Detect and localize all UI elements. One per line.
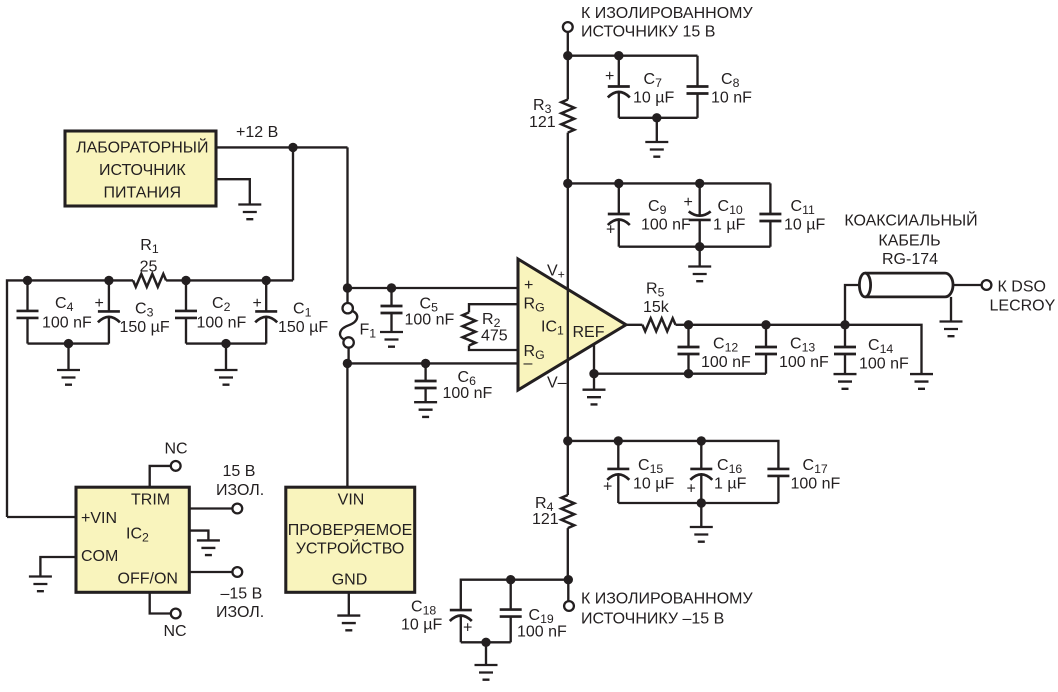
wire: C7/C8 bottom rail — [619, 117, 698, 119]
svg-text:ИЗОЛ.: ИЗОЛ. — [216, 604, 264, 621]
box: ПРОВЕРЯЕМОЕ УСТРОЙСТВО — [286, 487, 415, 592]
svg-text:–: – — [524, 355, 533, 372]
box: IC2 — [76, 487, 189, 592]
capacitor C7 10 µF (polarized) — [605, 56, 674, 118]
capacitor C3 150 µF (polarized) — [95, 280, 170, 343]
ground — [29, 577, 52, 592]
wire: V- rail — [568, 441, 779, 469]
svg-text:C10: C10 — [718, 198, 743, 217]
wire: junction up to coax — [845, 285, 859, 325]
svg-text:ИСТОЧНИКУ 15 В: ИСТОЧНИКУ 15 В — [581, 24, 715, 41]
svg-text:1 µF: 1 µF — [714, 476, 747, 493]
resistor R5 15k — [626, 281, 689, 332]
node: C12 bottom — [684, 369, 693, 378]
svg-text:ИСТОЧНИКУ –15 В: ИСТОЧНИКУ –15 В — [581, 611, 724, 628]
svg-text:F1: F1 — [360, 322, 377, 341]
svg-text:NC: NC — [164, 623, 187, 640]
svg-text:10 µF: 10 µF — [633, 90, 674, 107]
capacitor C2 100 nF — [175, 280, 247, 343]
svg-text:К DSO: К DSO — [998, 279, 1046, 296]
ground — [940, 322, 963, 337]
node: C15 top — [614, 436, 623, 445]
svg-text:100 nF: 100 nF — [405, 312, 455, 329]
wire: COM to ground — [40, 557, 76, 577]
svg-text:C9: C9 — [648, 198, 667, 217]
svg-text:NC: NC — [165, 441, 188, 458]
node: C7/C8 ground junction — [652, 113, 661, 122]
svg-text:150 µF: 150 µF — [278, 319, 328, 336]
ground — [238, 205, 261, 220]
wire: coax to DSO terminal — [953, 284, 982, 286]
svg-text:+: + — [253, 295, 262, 312]
wire: fuse to DUT VIN — [346, 363, 348, 487]
svg-text:100 nF: 100 nF — [779, 354, 829, 371]
resistor R3 121 — [529, 56, 574, 184]
wire: +input rail — [348, 287, 519, 289]
box: ЛАБОРАТОРНЫЙ ИСТОЧНИК ПИТАНИЯ — [65, 131, 216, 206]
capacitor C19 100 nF — [500, 580, 567, 643]
wire: REF ground stem — [593, 374, 595, 390]
capacitor C5 100 nF — [381, 288, 455, 332]
node: C10 top — [695, 179, 704, 188]
svg-text:121: 121 — [529, 114, 556, 131]
svg-text:25: 25 — [140, 259, 158, 276]
coax cable body — [859, 273, 953, 297]
svg-text:LECROY: LECROY — [990, 298, 1056, 315]
node: C15-C17 ground junction — [697, 498, 706, 507]
svg-text:GND: GND — [332, 572, 368, 589]
wire: stem to ground — [700, 503, 702, 527]
svg-text:100 nF: 100 nF — [42, 315, 92, 332]
node: NC bottom terminal — [171, 609, 181, 619]
node: -15V terminal — [564, 601, 574, 611]
wire: stem to -15V terminal — [567, 580, 569, 601]
node: DSO terminal — [982, 280, 992, 290]
node: C13 top — [761, 320, 770, 329]
svg-text:+: + — [605, 68, 614, 85]
capacitor C9 100 nF (polarized, + below) — [606, 183, 691, 246]
ground — [688, 267, 711, 282]
svg-text:C15: C15 — [638, 457, 663, 476]
ground — [475, 665, 498, 680]
svg-text:+: + — [684, 194, 693, 211]
svg-text:КАБЕЛЬ: КАБЕЛЬ — [878, 233, 940, 250]
svg-text:150 µF: 150 µF — [120, 319, 170, 336]
svg-text:УСТРОЙСТВО: УСТРОЙСТВО — [296, 539, 405, 558]
svg-text:V+: V+ — [547, 263, 565, 282]
wire: stem to ground — [485, 642, 487, 665]
svg-text:100 nF: 100 nF — [197, 315, 247, 332]
svg-text:ПРОВЕРЯЕМОЕ: ПРОВЕРЯЕМОЕ — [288, 522, 413, 539]
wire: DUT ground stem — [348, 592, 350, 615]
wire: NC bottom stub — [150, 592, 171, 613]
svg-text:TRIM: TRIM — [131, 492, 170, 509]
svg-text:100 nF: 100 nF — [517, 624, 567, 641]
svg-text:+: + — [463, 620, 472, 637]
svg-text:C18: C18 — [411, 599, 436, 618]
ground — [645, 142, 668, 157]
fuse F1 — [340, 288, 376, 363]
wire: top rail to C7/C8 — [568, 55, 698, 57]
svg-text:475: 475 — [481, 328, 508, 345]
node: +12V junction — [288, 143, 297, 152]
svg-text:+: + — [687, 481, 696, 498]
svg-text:100 nF: 100 nF — [641, 217, 691, 234]
svg-text:–15 В: –15 В — [221, 586, 263, 603]
node: C4-C3 ground junction — [64, 339, 73, 348]
node: C16 top — [697, 436, 706, 445]
svg-text:V–: V– — [547, 375, 567, 392]
node: V- rail junction — [563, 436, 572, 445]
svg-text:КОАКСИАЛЬНЫЙ: КОАКСИАЛЬНЫЙ — [844, 211, 977, 230]
svg-text:100 nF: 100 nF — [443, 385, 493, 402]
svg-text:VIN: VIN — [338, 492, 365, 509]
wire: supply ground stub — [216, 179, 250, 204]
ground — [380, 332, 403, 347]
wire: V+ rail — [568, 183, 771, 213]
wire: output rail — [689, 325, 922, 374]
wire: C15-C17 bottom rail — [618, 502, 778, 504]
svg-text:ИЗОЛ.: ИЗОЛ. — [216, 482, 264, 499]
node: C18-C19 ground junction — [481, 638, 490, 647]
svg-text:10 µF: 10 µF — [633, 476, 674, 493]
wire: stem to ground — [699, 247, 701, 267]
capacitor C8 10 nF — [687, 56, 753, 118]
node: C7 top junction — [614, 51, 623, 60]
wire: C18-C19 bottom rail — [461, 641, 511, 643]
svg-text:C7: C7 — [644, 71, 663, 90]
svg-text:C11: C11 — [791, 198, 815, 217]
svg-text:+: + — [603, 479, 612, 496]
ground — [215, 370, 238, 385]
svg-text:C3: C3 — [135, 301, 154, 320]
wire: left filter rail — [7, 280, 293, 517]
capacitor C14 100 nF — [834, 325, 909, 374]
node: -15V junction — [564, 575, 573, 584]
capacitor C18 10 µF (polarized) — [401, 599, 472, 643]
node: fuse bottom junction — [343, 359, 352, 368]
capacitor C15 10 µF (polarized) — [603, 441, 674, 503]
svg-text:10 µF: 10 µF — [401, 617, 442, 634]
svg-text:R5: R5 — [646, 281, 665, 300]
svg-text:R1: R1 — [140, 237, 159, 256]
svg-text:+12 В: +12 В — [236, 124, 278, 141]
svg-text:10 µF: 10 µF — [784, 217, 825, 234]
ground — [583, 390, 606, 405]
svg-text:ПИТАНИЯ: ПИТАНИЯ — [104, 185, 182, 202]
svg-text:C1: C1 — [293, 301, 312, 320]
wire: middle pin to ground — [189, 531, 208, 541]
wire: stem to ground — [656, 118, 658, 142]
ground — [337, 616, 360, 631]
svg-text:15 В: 15 В — [223, 463, 256, 480]
capacitor C13 100 nF — [755, 325, 829, 374]
svg-text:1 µF: 1 µF — [713, 217, 746, 234]
capacitor C10 1 µF (polarized, + above) — [684, 183, 746, 246]
wire: V+ / V- supply line through op-amp — [567, 183, 569, 441]
wire: +12V from box — [216, 146, 348, 148]
svg-text:C13: C13 — [790, 336, 815, 355]
capacitor C12 100 nF — [678, 325, 752, 374]
capacitor C11 10 µF — [759, 198, 825, 247]
svg-text:+: + — [606, 222, 615, 239]
wire: down to filter rail — [292, 147, 294, 280]
ground — [690, 527, 713, 542]
capacitor C17 100 nF — [767, 457, 840, 503]
wire: stem to ground — [67, 344, 69, 370]
capacitor C6 100 nF — [415, 363, 493, 402]
wire: down to fuse — [346, 147, 348, 288]
svg-text:C4: C4 — [55, 295, 74, 314]
svg-text:C8: C8 — [721, 71, 740, 90]
node: C12 top — [684, 320, 693, 329]
wire: coax shield to ground — [950, 297, 952, 322]
resistor R4 121 — [532, 441, 574, 580]
svg-text:ЛАБОРАТОРНЫЙ: ЛАБОРАТОРНЫЙ — [76, 138, 208, 157]
resistor R1 25 — [133, 237, 166, 287]
node: top rail junction — [563, 51, 572, 60]
svg-text:RG-174: RG-174 — [882, 251, 938, 268]
wire: REF stem — [593, 345, 595, 374]
wire: stem to ground — [225, 344, 227, 370]
wire: OFF/ON pin — [189, 571, 232, 573]
node: -15V isolated terminal — [232, 567, 242, 577]
ground — [57, 370, 80, 385]
node: NC top terminal — [171, 461, 181, 471]
svg-text:+: + — [524, 277, 533, 294]
wire: C2-C1 bottom rail — [186, 342, 266, 344]
node: C5 top — [387, 283, 396, 292]
ground (right) — [910, 374, 933, 389]
ground — [414, 402, 437, 417]
svg-text:C16: C16 — [717, 457, 742, 476]
node: C19 top — [506, 575, 515, 584]
node: C3 top — [104, 276, 113, 285]
svg-text:100 nF: 100 nF — [859, 356, 909, 373]
node: C4 top — [23, 276, 32, 285]
wire: -15V rail to C18/C19 — [461, 580, 569, 610]
node: C1 top — [262, 276, 271, 285]
svg-text:15k: 15k — [643, 299, 670, 316]
ground — [197, 540, 220, 555]
svg-text:10 nF: 10 nF — [711, 90, 752, 107]
wire: +VIN feedback from filter rail — [7, 516, 76, 518]
svg-text:C14: C14 — [868, 337, 893, 356]
svg-text:COM: COM — [81, 548, 118, 565]
resistor R2 475 (gain resistor) — [463, 304, 519, 350]
svg-text:REF: REF — [573, 324, 605, 341]
svg-text:100 nF: 100 nF — [701, 354, 751, 371]
node: C14 / coax junction — [840, 320, 849, 329]
node: C2-C1 ground junction — [221, 339, 230, 348]
wire: REF rail to C13 — [594, 373, 766, 375]
ground — [834, 374, 857, 389]
wire: NC top stub — [150, 466, 171, 487]
svg-text:C2: C2 — [212, 295, 231, 314]
capacitor C1 150 µF (polarized) — [253, 280, 329, 343]
capacitor C4 100 nF — [17, 280, 93, 343]
node: C9 top — [614, 179, 623, 188]
wire: terminal to top rail — [567, 32, 569, 56]
svg-text:К ИЗОЛИРОВАННОМУ: К ИЗОЛИРОВАННОМУ — [581, 591, 753, 608]
node: +15V terminal — [563, 22, 573, 32]
node: C2 top — [181, 276, 190, 285]
wire: C9-C11 bottom rail — [619, 246, 771, 248]
capacitor C16 1 µF (polarized) — [687, 441, 747, 503]
node: V+ rail junction — [563, 179, 572, 188]
wire: -input rail — [347, 362, 518, 364]
node: C9-C11 ground junction — [695, 242, 704, 251]
svg-text:121: 121 — [532, 511, 559, 528]
wire: C4-C3 bottom rail — [28, 342, 109, 344]
svg-text:ИСТОЧНИК: ИСТОЧНИК — [99, 162, 186, 179]
node: 15V isolated terminal — [232, 504, 242, 514]
svg-text:C12: C12 — [713, 336, 738, 355]
node: fuse top junction — [343, 283, 352, 292]
node: REF junction — [589, 369, 598, 378]
node: C6 top — [421, 359, 430, 368]
wire: TRIM pin — [189, 507, 232, 509]
svg-text:100 nF: 100 nF — [791, 476, 841, 493]
svg-text:К ИЗОЛИРОВАННОМУ: К ИЗОЛИРОВАННОМУ — [581, 5, 753, 22]
svg-text:C17: C17 — [803, 457, 828, 476]
svg-text:+: + — [95, 295, 104, 312]
svg-text:OFF/ON: OFF/ON — [118, 571, 178, 588]
svg-text:+VIN: +VIN — [81, 510, 117, 527]
op-amp IC1 (triangle) — [518, 259, 626, 392]
